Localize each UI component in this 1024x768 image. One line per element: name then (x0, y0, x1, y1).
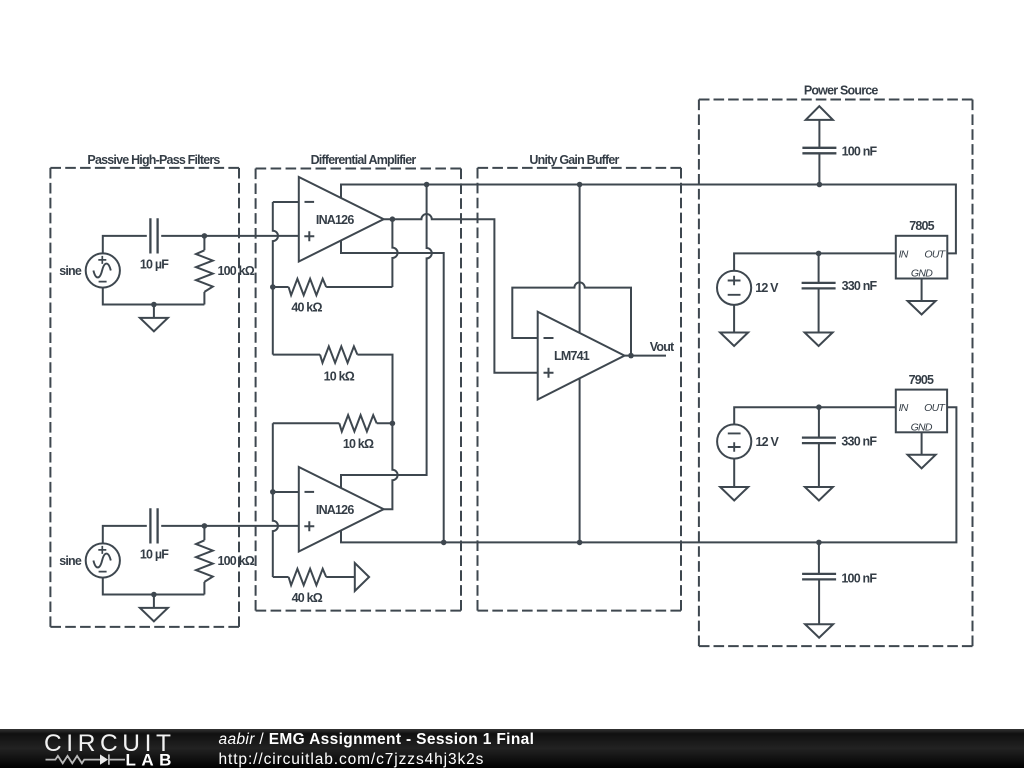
resistor R3 40k (273, 286, 393, 288)
node V- bus join (441, 540, 447, 546)
wire V3 to ground (733, 305, 735, 333)
node filter1 gnd (151, 302, 157, 308)
svg-text:sine: sine (59, 554, 82, 568)
power flag V+ (806, 106, 833, 120)
svg-text:GND: GND (911, 268, 933, 280)
wire 7805 GND pin (921, 279, 923, 302)
svg-text:10 µF: 10 µF (140, 548, 169, 562)
U3 plus sign (544, 368, 554, 378)
wire 7905 IN to source (734, 407, 896, 424)
node U2 -in (270, 489, 276, 495)
capacitor C6 100nF (802, 574, 836, 580)
node V- to U3 (577, 540, 583, 546)
wire node to cap C4 (818, 253, 820, 283)
svg-text:12 V: 12 V (756, 435, 780, 449)
capacitor C5 330nF (802, 438, 836, 444)
U3 minus sign (544, 337, 554, 339)
node R4-R5-out2 junction (390, 421, 396, 427)
power box (699, 99, 973, 101)
svg-text:LAB: LAB (126, 750, 177, 768)
ground C5 (805, 487, 833, 501)
svg-text:GND: GND (911, 421, 933, 433)
svg-text:Unity Gain Buffer: Unity Gain Buffer (529, 153, 619, 167)
svg-text:http://circuitlab.com/c7jzzs4h: http://circuitlab.com/c7jzzs4hj3k2s (219, 751, 485, 768)
wire R5 corner down to U2 -in (272, 423, 274, 492)
wire U1 output to buffer, hop over V+ drop (384, 214, 538, 373)
ground filter2 (153, 595, 155, 608)
source V4 12V (717, 424, 751, 458)
svg-text:330 nF: 330 nF (841, 434, 877, 448)
resistor R5 10k (339, 415, 376, 431)
ground C4 (805, 333, 833, 347)
wire U3 feedback, hop over V+ pin (512, 282, 631, 355)
U1 plus sign (304, 231, 314, 241)
svg-text:10 µF: 10 µF (140, 258, 169, 272)
svg-text:330 nF: 330 nF (842, 279, 878, 293)
capacitor C1 10uF (150, 218, 157, 253)
svg-text:INA126: INA126 (316, 503, 354, 517)
node V- to bypass cap (816, 540, 822, 546)
ground filter1 (153, 305, 155, 318)
node RG1 top (270, 284, 276, 290)
capacitor C3 100nF (802, 148, 836, 154)
filters box (50, 167, 239, 169)
wire cap C5 to ground (818, 443, 820, 487)
svg-text:100 nF: 100 nF (841, 571, 877, 585)
resistor R2 100k (196, 540, 213, 582)
wire -in U1 down to gain node, hop over +in wire (273, 202, 278, 355)
resistor R4 10k (320, 346, 357, 362)
wire U2 -in (273, 491, 299, 493)
node U1 output (390, 216, 396, 222)
wire cap C2 to +in node (161, 525, 299, 527)
node rail to U2 V+ (424, 182, 430, 188)
resistor R1 100k (196, 250, 213, 292)
svg-text:10 kΩ: 10 kΩ (343, 437, 374, 451)
svg-text:Passive High-Pass Filters: Passive High-Pass Filters (87, 153, 220, 167)
wire node to cap C5 (818, 407, 820, 438)
op-amp U1 INA126 (299, 177, 384, 262)
wire 7905 GND pin (921, 432, 923, 455)
wire U1 -in (273, 201, 299, 203)
regulator 7805 (896, 236, 948, 279)
wire U1 V- pin across to V- bus (341, 241, 444, 543)
wire source top to cap C2 (103, 526, 147, 544)
svg-text:INA126: INA126 (316, 213, 354, 227)
sine source V1 (86, 253, 120, 287)
diff amp box (256, 168, 461, 170)
footer bar (0, 729, 1024, 768)
wire cap C4 to ground (818, 288, 820, 332)
node filter2 gnd (151, 592, 157, 598)
svg-text:Differential Amplifier: Differential Amplifier (311, 153, 417, 167)
resistor R6 40k leads (273, 576, 355, 578)
wire source top to cap C1 (103, 236, 147, 254)
wire source bottom filter1 (103, 288, 205, 305)
wire U1 V+ pin and +V rail (341, 185, 956, 254)
node rail to U3 V+ (577, 182, 583, 188)
svg-text:sine: sine (59, 264, 82, 278)
node U3 output (628, 353, 634, 359)
svg-text:40 kΩ: 40 kΩ (292, 591, 323, 605)
svg-text:OUT: OUT (924, 248, 946, 260)
wire V- node to cap C6 (818, 542, 820, 574)
svg-text:12 V: 12 V (755, 281, 779, 295)
wire U2 V- pin and -V rail (341, 407, 956, 542)
svg-text:7905: 7905 (909, 373, 934, 387)
regulator 7905 (896, 390, 947, 433)
buffer box (478, 167, 682, 169)
svg-text:IN: IN (899, 248, 909, 260)
node filter2 out (202, 523, 208, 529)
svg-text:aabir / EMG Assignment - Sessi: aabir / EMG Assignment - Session 1 Final (219, 731, 535, 748)
svg-text:LM741: LM741 (554, 349, 590, 363)
ground 7805 (908, 301, 936, 315)
svg-text:40 kΩ: 40 kΩ (291, 301, 322, 315)
wire U3 V- pin (579, 378, 581, 542)
node 7905 IN cap (816, 404, 822, 410)
wire V+ drop to U2, hops over V- wire (341, 185, 432, 488)
resistor R2 100k leads (203, 526, 205, 595)
ground V3 (720, 333, 748, 347)
node rail to bypass cap (817, 182, 823, 188)
U2 minus sign (305, 491, 315, 493)
svg-text:100 kΩ: 100 kΩ (218, 264, 255, 278)
svg-text:100 nF: 100 nF (842, 145, 878, 159)
wire U3 output Vout (625, 355, 667, 357)
wire source bottom filter2 (103, 578, 205, 595)
wire flag to cap C3 (818, 120, 820, 147)
wire R3 riser to U1 output, hop over V- wire (392, 219, 397, 287)
svg-text:10 kΩ: 10 kΩ (324, 369, 355, 383)
wire 7805 IN to source (734, 253, 896, 270)
logo resistor-diode squiggle (46, 756, 101, 763)
resistor R6 40k (289, 569, 327, 585)
wire cap C6 to ground (818, 579, 820, 624)
op-amp U2 INA126 (299, 467, 384, 552)
wire cap C3 to rail (818, 154, 820, 184)
net flag on R6 (355, 563, 369, 591)
wire U2 -in down to RG2, hop over +in wire (273, 492, 278, 577)
svg-text:7805: 7805 (909, 219, 934, 233)
svg-text:Vout: Vout (650, 340, 675, 354)
wire V4 to ground (733, 459, 735, 487)
sine source V2 (86, 543, 120, 577)
wire U3 V+ pin (579, 185, 581, 333)
svg-text:Power Source: Power Source (804, 84, 879, 98)
node filter1 out (202, 233, 208, 239)
resistor R4 10k leads (273, 355, 393, 424)
capacitor C2 10uF (150, 508, 157, 543)
node 7805 IN cap (816, 251, 822, 257)
wire cap C1 to +in node (161, 235, 299, 237)
capacitor C4 330nF (802, 283, 836, 289)
U2 plus sign (304, 521, 314, 531)
logo diode (100, 754, 108, 764)
ground 7905 (908, 455, 936, 469)
svg-text:IN: IN (899, 402, 909, 414)
resistor R1 100k leads (203, 236, 205, 305)
wire U2 output riser, hop over V+ wire (384, 423, 398, 509)
ground C6 (805, 624, 833, 638)
ground V4 (720, 487, 748, 501)
source V3 12V (717, 271, 751, 305)
U1 minus sign (305, 201, 315, 203)
resistor R5 10k leads (273, 422, 393, 424)
svg-text:100 kΩ: 100 kΩ (218, 554, 255, 568)
op-amp U3 LM741 (538, 312, 625, 400)
svg-text:OUT: OUT (924, 402, 946, 414)
